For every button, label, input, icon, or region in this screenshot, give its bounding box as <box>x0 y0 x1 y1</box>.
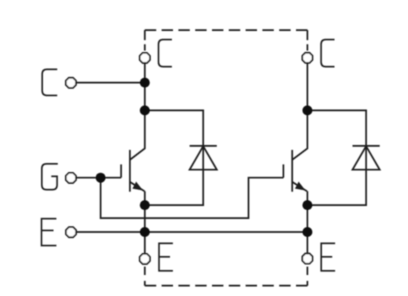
label E internal bottom-left <box>159 243 173 270</box>
terminal circle C internal right <box>302 53 312 63</box>
junction dot E row right <box>302 227 312 237</box>
junction dot D1 top <box>140 105 150 115</box>
junction dot E row left <box>140 227 150 237</box>
terminal circle E internal left <box>140 254 150 264</box>
terminal circle C internal left <box>140 53 150 63</box>
junction dot Q2 emitter <box>302 200 312 210</box>
diode D2 cathode bar <box>353 145 380 147</box>
IGBT Q1 gate bar <box>120 164 122 177</box>
terminal circle E external <box>66 227 76 237</box>
IGBT Q1 emitter arrow <box>133 183 142 190</box>
label C external <box>42 69 57 95</box>
diode D1 top wire <box>145 110 203 205</box>
IGBT Q2 body bar <box>291 150 293 192</box>
diode D2 top wire <box>307 110 366 205</box>
module outline bottom-right dashed stub <box>306 267 308 286</box>
wire left emitter axis <box>144 191 146 254</box>
IGBT Q2 emitter diagonal <box>292 182 307 191</box>
label E internal bottom-right <box>321 243 335 270</box>
diode D1 triangle <box>190 146 217 170</box>
terminal circle G external <box>66 173 76 183</box>
module outline bottom-left dashed stub <box>144 267 146 286</box>
junction dot C wire <box>140 78 150 88</box>
module outline bottom dashed edge <box>145 285 308 287</box>
module outline top dashed edge <box>145 29 308 31</box>
wire E terminal row <box>76 231 307 233</box>
module outline top-left dashed stub <box>144 30 146 50</box>
wire right collector axis <box>292 63 307 160</box>
wire right emitter axis <box>306 191 308 254</box>
wire gate cross link <box>101 178 284 218</box>
label E external <box>42 219 57 246</box>
IGBT Q1 body bar <box>129 150 131 192</box>
module outline top-right dashed stub <box>306 30 308 50</box>
IGBT Q1 emitter diagonal <box>130 182 145 191</box>
IGBT Q2 gate bar <box>282 164 284 177</box>
IGBT Q2 emitter arrow <box>296 183 305 190</box>
junction dot Q1 emitter <box>140 200 150 210</box>
diode D1 cathode bar <box>190 145 217 147</box>
wire G terminal to gate <box>75 177 121 179</box>
label C internal top-right <box>321 40 334 67</box>
terminal circle C external <box>66 78 76 88</box>
label G external <box>42 164 58 190</box>
junction dot D2 top <box>302 105 312 115</box>
junction dot G wire <box>96 173 106 183</box>
wire C terminal to axis <box>76 82 145 84</box>
diode D2 triangle <box>353 146 380 170</box>
wire left collector axis <box>130 63 145 160</box>
label C internal top-left <box>159 40 172 67</box>
terminal circle E internal right <box>302 254 312 264</box>
